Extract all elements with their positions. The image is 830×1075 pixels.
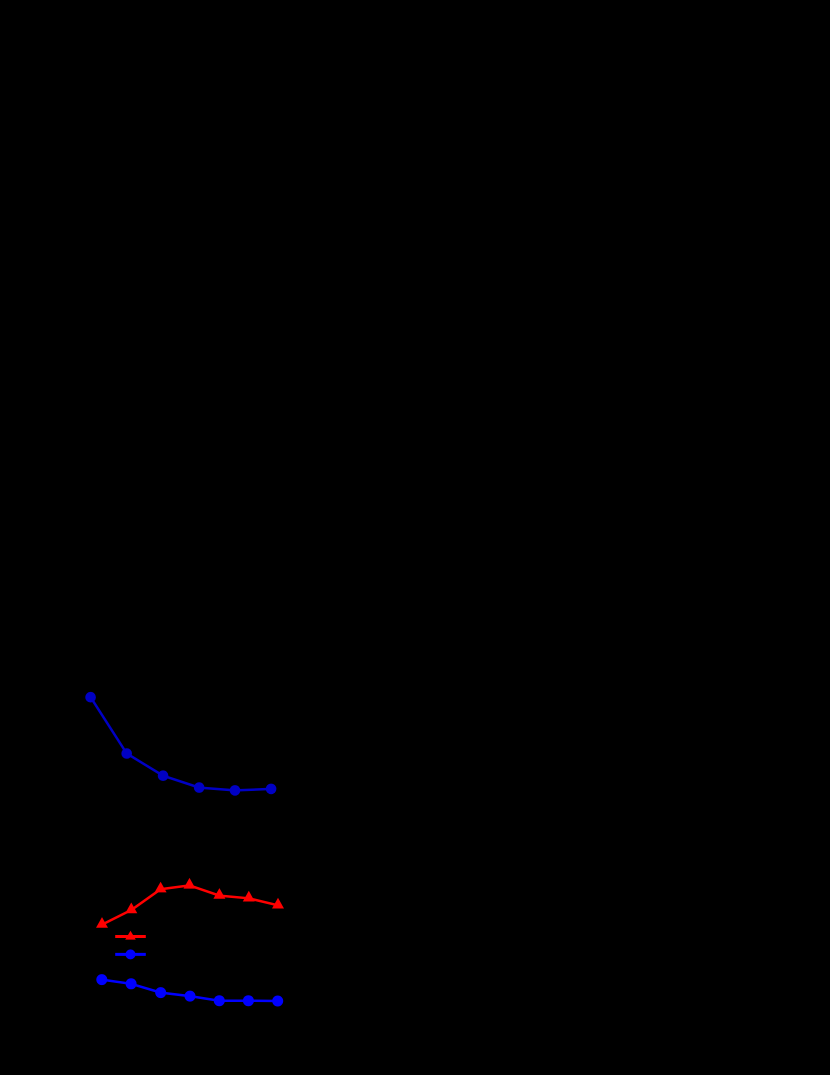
node R4 bbox=[184, 878, 196, 889]
wire bbox=[115, 953, 146, 956]
bottom subplot blue curve with circle markers bbox=[102, 980, 278, 1001]
wire bbox=[91, 697, 272, 790]
node B2 bbox=[121, 748, 132, 759]
figure: top subplot blue curve with circle markers bbox=[91, 697, 272, 790]
node R7 bbox=[272, 898, 284, 909]
node C4 bbox=[185, 991, 196, 1002]
node C3 bbox=[155, 987, 166, 998]
node C5 bbox=[214, 995, 225, 1006]
node R6 bbox=[243, 891, 255, 902]
node B5 bbox=[230, 785, 241, 796]
wire bbox=[115, 935, 146, 938]
node B1 bbox=[85, 692, 96, 703]
node C6 bbox=[243, 995, 254, 1006]
node B3 bbox=[158, 770, 169, 781]
node R3 bbox=[155, 882, 167, 893]
legend entry: blue line with circle marker bbox=[115, 949, 146, 959]
node R5 bbox=[213, 888, 225, 899]
node C7 bbox=[272, 996, 283, 1007]
node B4 bbox=[194, 782, 205, 793]
node R1 bbox=[96, 917, 108, 928]
wire bbox=[102, 980, 278, 1001]
node C1 bbox=[96, 974, 107, 985]
node legend-circle bbox=[126, 949, 136, 959]
legend entry: red line with triangle marker bbox=[115, 931, 146, 940]
node R2 bbox=[125, 903, 137, 914]
node B6 bbox=[266, 784, 277, 795]
node legend-triangle bbox=[125, 931, 136, 940]
node C2 bbox=[126, 978, 137, 989]
wire bbox=[102, 885, 278, 924]
bottom subplot red curve with triangle markers bbox=[102, 885, 278, 924]
